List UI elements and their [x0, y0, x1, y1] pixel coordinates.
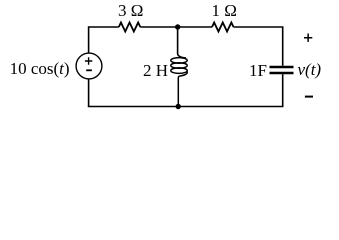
inductor L1 loop 3 — [171, 68, 187, 74]
voltage source minus sign — [86, 69, 92, 71]
output plus sign — [304, 34, 312, 42]
svg-text:1 Ω: 1 Ω — [212, 1, 237, 20]
wire: top rail right segment with corner down to capacitor — [234, 27, 283, 66]
wire: bottom rail — [88, 106, 284, 108]
svg-text:10 cos(t): 10 cos(t) — [10, 59, 70, 78]
wire: inductor entry from node A — [178, 27, 186, 58]
wire: source bottom to bottom rail — [88, 79, 90, 107]
svg-text:2 H: 2 H — [143, 61, 168, 80]
wire: top rail left segment — [89, 27, 119, 53]
wire: inductor exit to bottom rail — [178, 72, 187, 107]
svg-text:v(t): v(t) — [298, 60, 322, 79]
output minus sign — [305, 96, 313, 98]
capacitor C1 bottom plate — [270, 72, 294, 74]
voltage source VS circle — [76, 53, 102, 79]
node B junction dot bottom — [176, 104, 181, 109]
resistor R2 1-ohm zigzag — [212, 23, 234, 32]
wire: top rail middle segment — [140, 26, 212, 28]
voltage source plus sign — [85, 57, 92, 64]
wire: capacitor bottom to bottom rail — [282, 74, 284, 106]
inductor L1 loop 2 — [171, 63, 187, 69]
capacitor C1 top plate — [270, 66, 294, 68]
svg-text:1F: 1F — [249, 61, 267, 80]
inductor L1 loop 1 — [171, 58, 187, 64]
svg-text:3 Ω: 3 Ω — [118, 1, 143, 20]
resistor R1 3-ohm zigzag — [119, 23, 141, 32]
node A junction dot top — [175, 24, 180, 29]
